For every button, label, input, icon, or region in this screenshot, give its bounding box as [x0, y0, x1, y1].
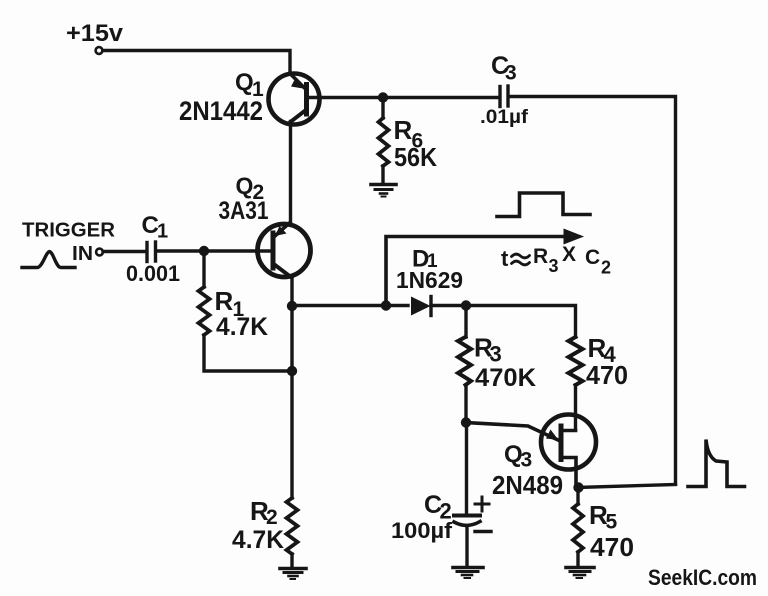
diode D1: [411, 297, 431, 316]
svg-text:100µf: 100µf: [391, 518, 453, 543]
svg-text:3: 3: [490, 342, 502, 367]
svg-text:2N1442: 2N1442: [179, 96, 263, 126]
junction C1/R1/base: [199, 246, 209, 256]
junction R3 top: [461, 300, 471, 310]
wire emitter of Q3: [466, 423, 558, 441]
ground R5: [566, 568, 594, 579]
svg-text:R: R: [394, 115, 413, 145]
timing pointer arrow: [386, 229, 584, 306]
svg-text:3: 3: [549, 256, 559, 276]
transistor Q2: [258, 223, 311, 278]
capacitor C2: [454, 516, 480, 567]
svg-text:470: 470: [586, 360, 628, 390]
+15v input terminal: [96, 47, 103, 54]
wire C3 to right rail: [511, 97, 676, 485]
wire collector node to D1: [292, 304, 408, 307]
svg-text:R: R: [215, 286, 234, 316]
wire D1 to R3/R4: [431, 306, 576, 338]
junction R3 bottom / C2 / Q3 emitter: [461, 417, 471, 427]
wire Q2 collector down to R2: [290, 278, 293, 499]
svg-text:56K: 56K: [394, 142, 437, 172]
svg-text:2: 2: [601, 258, 611, 278]
svg-text:3: 3: [505, 62, 517, 85]
svg-text:R: R: [533, 245, 548, 268]
junction Q3 B1 / R5 / output: [573, 482, 583, 492]
resistor R2: [287, 498, 298, 567]
svg-text:+15v: +15v: [66, 20, 124, 47]
svg-text:470K: 470K: [475, 364, 536, 392]
wire Q1 base to C3: [308, 96, 497, 99]
resistor R5: [573, 488, 583, 567]
svg-text:3A31: 3A31: [219, 197, 269, 225]
polarity + of C2: [475, 497, 489, 511]
wire terminal to C1: [103, 250, 145, 253]
svg-text:Q: Q: [235, 69, 254, 96]
resistor R3: [458, 306, 471, 423]
junction arrow riser: [381, 300, 391, 310]
output pulse waveform: [688, 440, 745, 487]
svg-text:SeekIC.com: SeekIC.com: [648, 565, 757, 590]
unijunction transistor Q3: [541, 415, 596, 488]
svg-text:2N489: 2N489: [492, 470, 563, 500]
svg-text:Q: Q: [236, 173, 254, 199]
transistor Q1: [269, 74, 320, 125]
timing square pulse waveform: [497, 193, 590, 217]
trigger input waveform: [22, 252, 75, 268]
ground R6: [371, 185, 396, 197]
svg-text:t: t: [501, 246, 509, 271]
ground R2: [280, 569, 306, 580]
svg-text:IN: IN: [72, 243, 93, 265]
svg-text:3: 3: [521, 449, 533, 472]
wire R3 node down to C2: [465, 423, 468, 514]
wire Q1 collector to Q2 emitter: [289, 122, 292, 224]
resistor R1: [199, 251, 291, 371]
svg-text:4.7K: 4.7K: [232, 526, 284, 554]
resistor R4: [569, 337, 583, 430]
svg-text:4.7K: 4.7K: [216, 313, 268, 341]
svg-text:.01µf: .01µf: [480, 107, 529, 128]
wire C1 to Q2 base: [158, 249, 271, 252]
svg-text:470: 470: [590, 532, 634, 562]
polarity - of C2: [475, 530, 491, 533]
svg-text:0.001: 0.001: [126, 261, 180, 286]
svg-text:1: 1: [157, 221, 168, 243]
junction R1 bottom: [287, 366, 297, 376]
junction Q2 collector / D1: [287, 301, 297, 311]
wire +15v rail to Q1 emitter: [103, 51, 290, 75]
capacitor C1: [147, 242, 156, 262]
svg-text:1N629: 1N629: [396, 267, 463, 293]
svg-text:X: X: [562, 243, 576, 266]
trigger input terminal: [96, 249, 103, 256]
ground C2: [453, 568, 483, 579]
wire B1 node to right rail: [577, 485, 676, 488]
capacitor C3: [500, 86, 508, 107]
resistor R6: [379, 98, 389, 185]
svg-text:5: 5: [606, 511, 618, 534]
svg-text:TRIGGER: TRIGGER: [22, 220, 116, 242]
junction R6 top: [378, 92, 388, 102]
svg-text:C: C: [585, 246, 600, 269]
